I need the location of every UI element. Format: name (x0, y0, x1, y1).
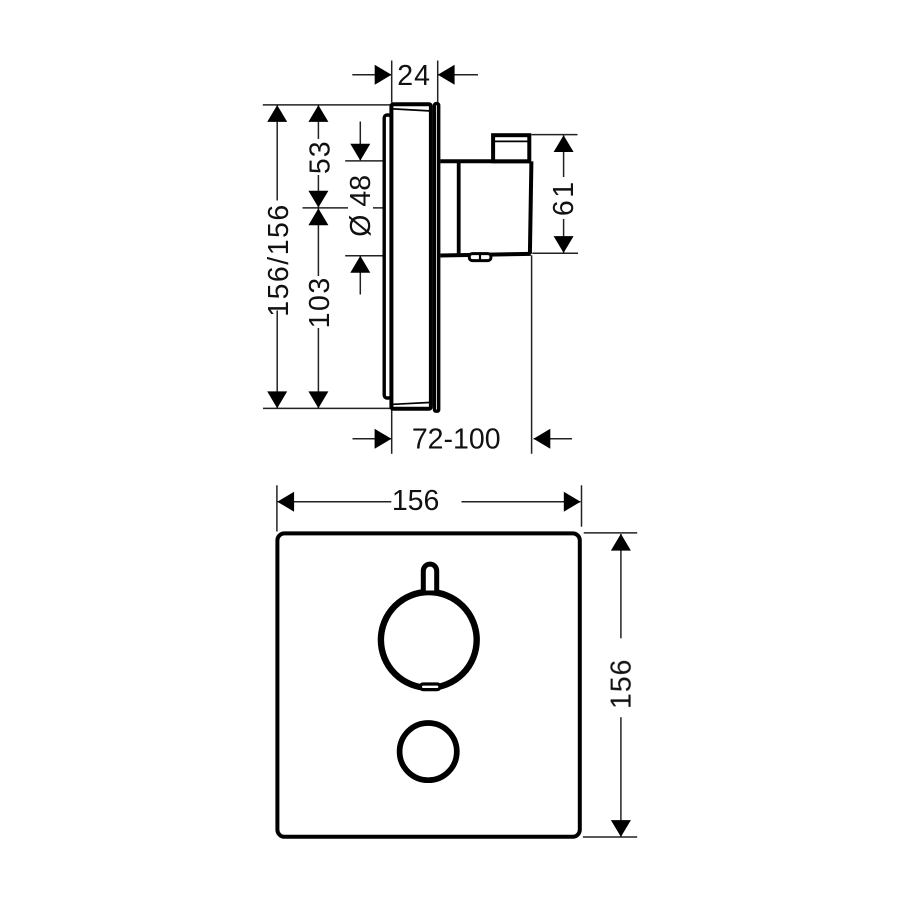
knob (493, 135, 529, 161)
svg-text:156/156: 156/156 (263, 203, 295, 317)
svg-text:156: 156 (392, 485, 440, 517)
junction tick 53/103 (303, 207, 386, 209)
white gap behind 103 label (306, 276, 331, 328)
bottom notch (420, 684, 440, 690)
156/156 down (267, 391, 287, 408)
156 right up arrow (611, 534, 631, 551)
white gap behind 156/156 label (266, 201, 291, 311)
square plate (277, 533, 579, 836)
knob inner line (495, 140, 528, 142)
extension line 61 bottom (532, 252, 578, 254)
156/156 up (267, 105, 287, 122)
svg-text:24: 24 (397, 60, 431, 92)
53 down (308, 191, 328, 208)
svg-text:61: 61 (548, 179, 580, 216)
72-100 right (375, 429, 392, 449)
svg-text:53: 53 (304, 140, 336, 174)
dim line 61 (563, 135, 565, 253)
body left face (457, 161, 461, 255)
61 up (554, 135, 574, 152)
body top line (440, 159, 530, 163)
d48 up (350, 256, 370, 273)
dim line 72-100 right (534, 438, 572, 440)
labels bottom figure (392, 485, 638, 709)
156 top left arrow (277, 492, 294, 512)
dim line 72-100 left (353, 438, 392, 440)
d48 down (350, 144, 370, 161)
tick d48 bottom (345, 255, 389, 257)
103 up (308, 208, 328, 225)
small circle (400, 723, 457, 780)
white gap behind 61 label (551, 177, 576, 219)
dim line 103 (317, 208, 319, 408)
extension line 72-100 right vertical (531, 255, 533, 453)
dim line d48 lower (359, 256, 361, 295)
tab divider (479, 255, 481, 260)
dim line 24 right (438, 74, 478, 76)
24 left (438, 65, 455, 85)
white gap behind 53 label (306, 139, 331, 175)
24 right (375, 65, 392, 85)
dim line 156 top (278, 501, 392, 503)
main plate (391, 104, 431, 409)
svg-text:156: 156 (606, 659, 638, 710)
dim line d48 upper (359, 122, 361, 161)
bottom tab (469, 254, 491, 261)
svg-text:103: 103 (304, 276, 336, 328)
dim line 156 right (620, 534, 622, 638)
extension lines (276, 485, 278, 531)
61 down (554, 236, 574, 253)
labels top figure (263, 60, 580, 456)
handle tab (423, 564, 436, 590)
156 top right arrow (564, 492, 581, 512)
white gap behind d48 label (348, 174, 373, 238)
chamfer bottom (393, 403, 429, 405)
53 up (308, 105, 328, 122)
front plate (435, 104, 439, 412)
extension line 24 left vertical (391, 61, 393, 103)
dim line 156/156 (276, 105, 278, 408)
extension line top-left (263, 104, 392, 106)
156 right down arrow (611, 820, 631, 837)
103 down (308, 391, 328, 408)
dim line 24 left (352, 74, 391, 76)
extension line 24 right vertical (437, 61, 439, 103)
72-100 left (534, 429, 551, 449)
tick d48 top (345, 160, 384, 162)
svg-text:72-100: 72-100 (412, 423, 501, 455)
body right edge (530, 161, 532, 253)
extension line bottom-left (263, 407, 392, 409)
extension line 61 top (532, 134, 578, 136)
big circle (381, 592, 477, 688)
chamfer top (393, 109, 429, 111)
dim line 53 (317, 105, 319, 207)
body bottom line (440, 254, 530, 256)
back plate (384, 115, 391, 398)
extension line 72-100 left vertical (391, 409, 393, 454)
svg-text:Ø 48: Ø 48 (345, 175, 377, 237)
